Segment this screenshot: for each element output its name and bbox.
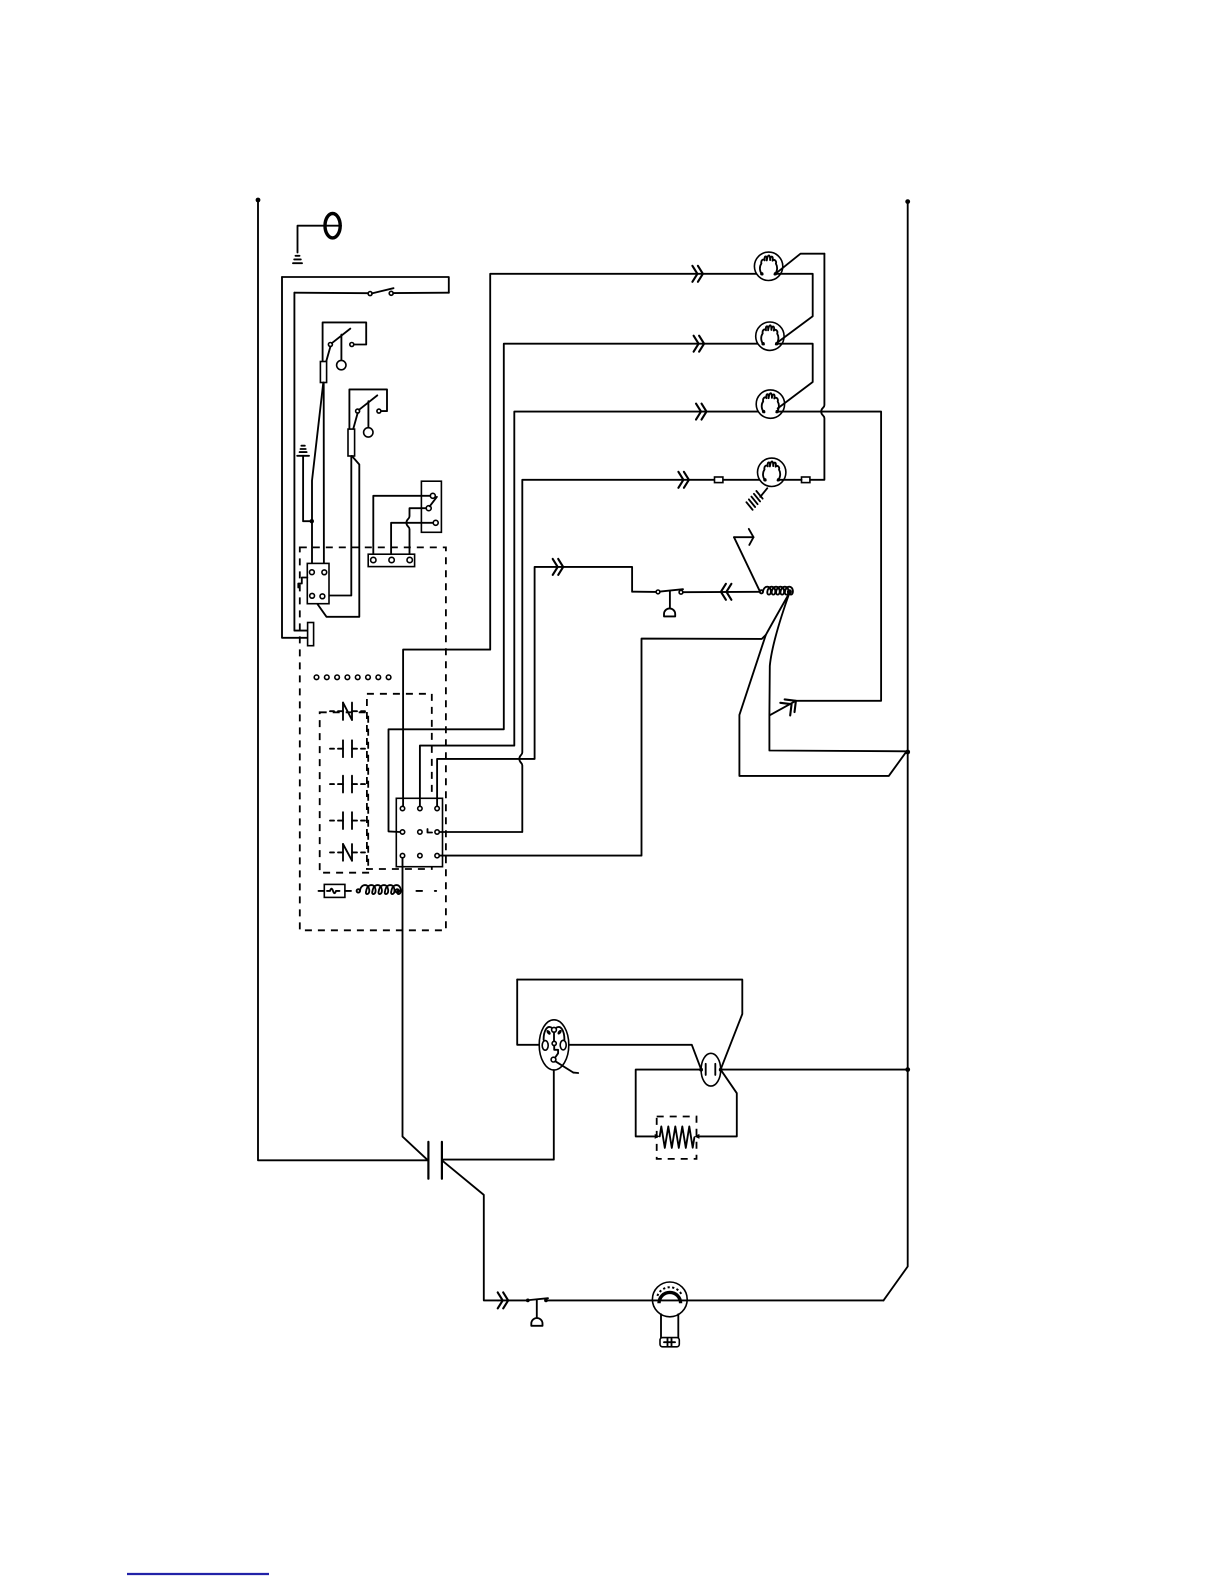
rotary loop left (517, 980, 539, 1045)
switch S1 contacts (328, 343, 332, 347)
lamp DL1 oval indicator (324, 214, 341, 238)
wire TB to capacitor (403, 858, 428, 1161)
wire lamp line (498, 1299, 526, 1301)
switch S2 contacts (356, 409, 360, 413)
connector CH2 (694, 336, 705, 352)
wire coil to oven circuit A (739, 593, 905, 776)
wire switch to lamp (546, 1299, 652, 1301)
wire W4 fuse to burner (723, 479, 765, 481)
wire L2 right rail (884, 202, 908, 1301)
wire capacitor to lamp line (442, 1160, 498, 1300)
wire dash-dot after coil (416, 890, 436, 892)
coil RL1 (357, 885, 403, 894)
oven light switch TS2 contacts (526, 1299, 530, 1303)
capacitor C1 (428, 1142, 442, 1179)
oven lamp LP1 (652, 1282, 687, 1347)
wire door line right (393, 292, 449, 294)
selector B3 terminals (430, 493, 435, 498)
bake element EL1 (655, 1126, 700, 1148)
resistor R2 (348, 429, 355, 456)
burner B3 (756, 390, 784, 418)
wire L1 left rail (258, 200, 428, 1160)
connector CH7 left-pointing (721, 584, 732, 600)
wire W2 burner2 feed (389, 344, 763, 832)
terminal block pins (400, 806, 439, 858)
bracket mark near TB1 (428, 829, 433, 833)
oven sensor coil SC1 (760, 587, 793, 595)
fuse FL4a (715, 477, 723, 483)
wire second rail to connector (294, 293, 307, 631)
switch S1 blade (332, 329, 351, 344)
wire door line (294, 292, 368, 295)
node L1 terminal dot (256, 198, 261, 203)
thermostat TS1 contacts (656, 590, 660, 594)
wire W4 burner4 feed (440, 480, 715, 832)
switch S1 pilot lamp (340, 335, 342, 360)
wire FL4b to burner4 (779, 479, 802, 481)
connector CH3 (696, 404, 707, 420)
relay contact K2a (330, 740, 365, 757)
thermostat TS1 blade (660, 589, 683, 591)
terminal block TB1 (396, 798, 442, 866)
switch S1 box (323, 322, 367, 361)
wire R2 to relay BR (325, 456, 351, 596)
node J2 rail junction (905, 750, 910, 755)
rotary selector RS1 (539, 1020, 578, 1073)
wire rotary to oval (569, 1045, 701, 1070)
wire R2 jog to BL loop (312, 456, 359, 617)
node J3 rail junction (905, 1067, 910, 1072)
wire B3 T1 to strip (373, 496, 430, 555)
wire coil to oven circuit B (769, 593, 789, 715)
wire B3 T3 to strip (391, 523, 433, 555)
relay contact K2b (330, 776, 365, 793)
wire left vertical to connector (282, 277, 308, 638)
switch S2 pilot lamp (367, 401, 369, 427)
relay K1 terminals (310, 570, 315, 575)
temp adjust arrow (734, 529, 760, 591)
burner B1 (754, 252, 782, 280)
fuse F1 (319, 884, 352, 897)
control board dashed box (300, 547, 446, 930)
switch S2 box (349, 389, 387, 429)
footer blue rule (127, 1573, 269, 1575)
strip P3 (368, 554, 414, 566)
thermostat TS1 bulb (664, 591, 675, 616)
node J1 junction dot (310, 519, 314, 523)
relay contact N2 (330, 844, 365, 861)
relay contact K2c (330, 812, 365, 829)
fuse FL4b (802, 477, 810, 483)
burner B4 (758, 458, 786, 486)
wire W3 burner3 feed (420, 412, 764, 806)
wire oval right lead to rail (721, 1069, 906, 1071)
switch S2 blade (359, 395, 377, 409)
inner dashed box A (320, 712, 369, 872)
connector CH8 (498, 1292, 509, 1308)
wire B1 to B2 chain (775, 274, 812, 343)
connector CH5 tilted (780, 694, 800, 715)
burner B2 (756, 322, 784, 350)
wire bake loop left (440, 635, 766, 856)
connector P1 (308, 623, 314, 646)
ground G2 (297, 446, 309, 456)
wire S1 contact to R1 (326, 347, 330, 362)
wire lamp to rail (687, 1299, 883, 1301)
wire thermostat feed from TB (437, 567, 656, 806)
wire B3 T2 to strip (with hop) (406, 508, 426, 555)
selector B3 blade (430, 497, 437, 507)
wire R1 diagonal to relay TL (312, 383, 323, 570)
wire B3 to oven chain (769, 412, 905, 752)
switch SW-A on door line (368, 288, 393, 295)
oven light switch blade (530, 1298, 548, 1300)
wire TS1 to sensor coil (683, 591, 760, 593)
wire top-left loop upper (282, 277, 449, 293)
ground G1 (293, 256, 302, 263)
rotary loop top (517, 980, 742, 1070)
element dashed outline (657, 1117, 697, 1159)
relay K1 tab (298, 578, 307, 588)
node L2 terminal dot (905, 199, 910, 204)
selector B3 box (421, 481, 441, 532)
connector pin row (8 circles) (314, 675, 391, 680)
strip P3 terminals (371, 557, 376, 562)
wire G2 stem (303, 456, 310, 521)
oven light switch bulb (531, 1300, 542, 1326)
wire rotary bottom to capacitor (444, 1070, 554, 1160)
wire S2 contact to R2 (353, 413, 357, 429)
chassis brush under burner4 (746, 488, 767, 510)
wire W1 burner1 feed (403, 274, 762, 806)
wire R1 to relay TR (323, 383, 325, 571)
connector CH1 (692, 266, 703, 282)
wire bus down with hop (810, 254, 824, 480)
resistor R1 (320, 362, 326, 383)
relay contact N1 (330, 703, 365, 720)
inner dashed box B (367, 694, 432, 869)
wire oval to element right (697, 1070, 737, 1137)
wire B1 top bus (775, 254, 824, 274)
connector CH6 (553, 559, 564, 575)
connector CH4 (678, 472, 689, 488)
relay K1 box (307, 563, 329, 603)
lamp capacitor oval CV1 (699, 1053, 722, 1086)
wire DL1 to ground (298, 226, 326, 253)
wire B2 to B3 chain (777, 344, 813, 409)
wire oval left lead (636, 1070, 701, 1137)
